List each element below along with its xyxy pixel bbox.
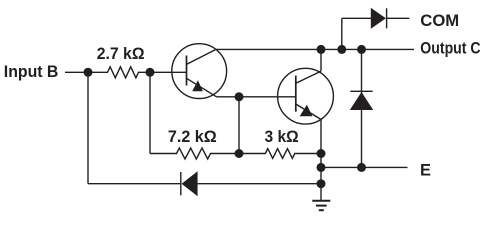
svg-text:E: E	[420, 162, 431, 180]
diode D3 output clamp	[350, 49, 373, 167]
node emitter/base junction	[235, 92, 244, 101]
ground	[312, 184, 330, 211]
node input junction	[84, 68, 93, 77]
node COM branch on rail	[337, 45, 346, 54]
resistor R1 2.7 k	[88, 67, 150, 78]
node diode row junction	[317, 179, 326, 188]
wire Output C rail	[216, 48, 414, 50]
diode D1 input clamp	[88, 171, 321, 196]
node 3k right junction	[317, 149, 326, 158]
wire Q2 emitter down	[320, 119, 322, 183]
wire Q1 emitter row	[217, 96, 296, 98]
node output diode on rail	[357, 45, 366, 54]
svg-text:COM: COM	[420, 12, 459, 30]
svg-text:3 kΩ: 3 kΩ	[265, 128, 299, 146]
wire input column	[87, 72, 89, 183]
wire base of Q1	[150, 71, 186, 73]
resistor R3 3 k	[239, 149, 321, 159]
transistor Q2	[278, 68, 334, 124]
wire vertical from R1 right junction	[149, 72, 151, 153]
resistor R2 7.2 k	[150, 148, 239, 159]
wire down from emitter junction	[238, 97, 240, 154]
svg-text:Input B: Input B	[4, 63, 59, 81]
node R1 right junction	[146, 68, 155, 77]
wire Q2 collector up	[320, 49, 322, 71]
node resistor junction	[235, 149, 244, 158]
node E rail junction	[317, 163, 326, 172]
wire input lead	[65, 71, 88, 73]
transistor Q1	[172, 44, 227, 99]
node collector on rail	[317, 45, 326, 54]
wire E rail	[321, 166, 408, 168]
diode D2 to COM	[342, 8, 410, 50]
svg-text:2.7 kΩ: 2.7 kΩ	[97, 45, 145, 63]
svg-text:Output C: Output C	[420, 39, 480, 57]
svg-text:7.2 kΩ: 7.2 kΩ	[168, 128, 217, 146]
node output diode on E rail	[357, 163, 366, 172]
